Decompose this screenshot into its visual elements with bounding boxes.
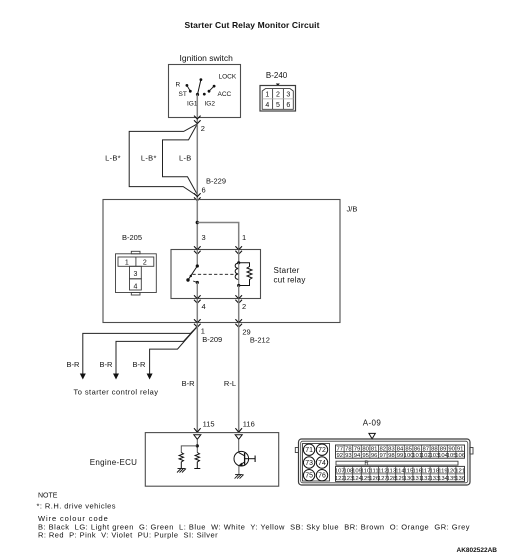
svg-text:R-L: R-L [224, 379, 236, 388]
transistor Q circle [234, 451, 249, 466]
svg-text:71: 71 [305, 447, 313, 454]
svg-text:94: 94 [354, 453, 361, 459]
branch wire B [116, 327, 197, 375]
svg-text:6: 6 [286, 102, 290, 109]
svg-text:NOTE: NOTE [38, 493, 58, 500]
arrow into ECU pin116 [235, 428, 242, 432]
arrow into J/B node 6 [194, 193, 201, 196]
transistor base T-bar [254, 456, 256, 463]
relay switch arm mid dot [190, 275, 192, 277]
svg-text:81: 81 [371, 446, 378, 452]
arrow B-212 pin29 [235, 319, 242, 322]
transistor emitter [239, 462, 245, 466]
svg-text:3: 3 [133, 271, 137, 278]
relay actuation dashed line [193, 273, 238, 275]
svg-text:99: 99 [397, 453, 404, 459]
connector A-09 body [299, 439, 471, 485]
svg-text:2: 2 [276, 92, 280, 99]
svg-text:B-229: B-229 [206, 177, 226, 186]
wire main L-B [196, 124, 198, 199]
svg-text:LOCK: LOCK [219, 74, 237, 81]
svg-text:Starter: Starter [274, 266, 300, 275]
Engine-ECU box [145, 433, 278, 487]
relay coil top node dot [237, 261, 240, 264]
relay switch top contact dot [196, 264, 199, 267]
svg-text:3: 3 [202, 233, 206, 242]
svg-text:88: 88 [431, 446, 438, 452]
arrow pin1 into relay [235, 246, 242, 249]
arrow B-209 pin1 [194, 319, 201, 322]
starter cut relay box [171, 250, 261, 299]
relay coil [235, 263, 239, 280]
svg-text:R: Red P: Pink V: Violet PU: R: Red P: Pink V: Violet PU: Purple SI: … [38, 531, 218, 540]
transistor base bar [244, 453, 246, 465]
wire pin115 to junction [196, 439, 198, 452]
ignition switch movable arm [198, 80, 201, 95]
svg-text:cut relay: cut relay [274, 276, 306, 285]
ground left [177, 469, 186, 473]
svg-text:*: R.H. drive vehicles: *: R.H. drive vehicles [37, 501, 117, 510]
svg-text:72: 72 [318, 447, 326, 454]
A-09 left tab [295, 448, 298, 453]
svg-text:106: 106 [455, 453, 466, 459]
svg-text:R: R [364, 461, 369, 467]
ground transistor [235, 475, 244, 479]
connector B-205 [116, 251, 157, 295]
svg-text:96: 96 [371, 453, 378, 459]
svg-text:4: 4 [202, 302, 206, 311]
wire branch to coil [197, 223, 238, 250]
terminator bar [194, 468, 200, 470]
svg-text:ST: ST [179, 91, 187, 98]
ignition switch box [169, 65, 241, 118]
svg-text:91: 91 [457, 446, 464, 452]
svg-text:86: 86 [414, 446, 421, 452]
ignition switch contact links [187, 85, 190, 91]
svg-text:4: 4 [133, 284, 137, 291]
B-240 top marker [276, 84, 280, 87]
relay coil bottom node dot [237, 284, 240, 287]
svg-text:B-209: B-209 [202, 335, 222, 344]
ignition switch position labels [176, 74, 237, 108]
svg-text:1: 1 [125, 260, 129, 267]
wire node6 to junction [196, 200, 198, 250]
svg-text:6: 6 [202, 186, 206, 195]
resistor right [195, 453, 199, 469]
svg-text:85: 85 [405, 446, 412, 452]
svg-text:115: 115 [203, 420, 215, 429]
svg-text:87: 87 [423, 446, 430, 452]
transistor emitter arrow [239, 463, 243, 467]
svg-text:83: 83 [388, 446, 395, 452]
svg-text:89: 89 [440, 446, 447, 452]
svg-text:97: 97 [380, 453, 387, 459]
relay coil parallel resistor [239, 263, 252, 286]
svg-text:L-B*: L-B* [105, 154, 121, 163]
transistor base lead [245, 458, 256, 460]
A-09 right tab [470, 448, 473, 455]
svg-text:136: 136 [455, 476, 466, 482]
wire pin116 to transistor [238, 439, 240, 452]
A-09 round pin area [303, 444, 330, 482]
junction node dot [196, 221, 199, 224]
svg-text:B-R: B-R [100, 360, 114, 369]
svg-text:5: 5 [276, 102, 280, 109]
arrow pin2 out of relay [235, 295, 242, 298]
junction block J/B box [103, 200, 340, 323]
svg-text:1: 1 [242, 233, 246, 242]
relay switch bottom contact dot [196, 281, 199, 284]
svg-text:To starter control relay: To starter control relay [74, 388, 159, 397]
svg-text:L-B: L-B [179, 154, 192, 163]
arrow pin4 out of relay [194, 295, 201, 298]
relay switch wire top [196, 250, 198, 267]
arrow into ECU pin115 [194, 428, 201, 432]
svg-text:B-212: B-212 [250, 336, 270, 345]
svg-text:121: 121 [455, 468, 465, 474]
relay switch arm [188, 266, 197, 280]
wire branch left [181, 446, 197, 453]
svg-text:B-R: B-R [133, 360, 147, 369]
svg-text:73: 73 [305, 460, 313, 467]
svg-text:R: R [176, 82, 181, 89]
resistor left [179, 453, 183, 469]
branch wire C [150, 327, 198, 375]
svg-text:4: 4 [265, 102, 269, 109]
svg-text:77: 77 [337, 446, 344, 452]
svg-text:IG1: IG1 [187, 101, 198, 108]
wire R-L to ECU [238, 323, 240, 433]
relay switch wire bottom [196, 283, 198, 299]
ECU pin116 entry triangle [235, 435, 242, 440]
svg-text:82: 82 [380, 446, 387, 452]
svg-text:74: 74 [318, 460, 326, 467]
relay coil wire bottom [238, 286, 240, 299]
svg-text:116: 116 [243, 420, 255, 429]
svg-text:A-09: A-09 [363, 419, 382, 428]
arrow pin3 into relay [194, 246, 201, 249]
svg-text:2: 2 [143, 260, 147, 267]
wire emitter to ground [238, 466, 240, 475]
svg-text:3: 3 [286, 92, 290, 99]
A-09 orientation triangle [369, 433, 375, 439]
ECU junction dot [196, 444, 199, 447]
wire B-R to ECU [196, 323, 198, 433]
svg-text:93: 93 [345, 453, 352, 459]
wire middle loop L-B* [163, 124, 198, 195]
relay switch arm end dot [186, 278, 189, 281]
svg-text:Engine-ECU: Engine-ECU [90, 458, 137, 467]
ECU pin115 entry triangle [194, 435, 201, 440]
svg-text:79: 79 [354, 446, 361, 452]
branch wire A to starter control relay [83, 327, 198, 375]
A-09 grid [335, 445, 466, 482]
svg-text:75: 75 [305, 473, 313, 480]
svg-text:95: 95 [362, 453, 369, 459]
ignition switch rotary contacts [186, 78, 216, 96]
svg-text:2: 2 [242, 302, 246, 311]
arrow out of ignition switch [194, 116, 201, 119]
transistor collector [239, 453, 245, 456]
svg-text:J/B: J/B [347, 205, 358, 214]
svg-text:98: 98 [388, 453, 395, 459]
svg-text:84: 84 [397, 446, 404, 452]
svg-text:AK802522AB: AK802522AB [457, 547, 498, 554]
relay coil wire top [238, 250, 240, 263]
wire ignition pivot to pin 2 [196, 95, 198, 124]
svg-text:2: 2 [201, 124, 205, 133]
svg-text:Ignition switch: Ignition switch [180, 53, 234, 63]
svg-text:B-R: B-R [182, 379, 196, 388]
svg-text:IG2: IG2 [205, 101, 216, 108]
branch arrowheads [80, 374, 86, 380]
wire pin4 to J/B bottom [196, 299, 198, 323]
wire outer loop L-B* [129, 124, 197, 196]
svg-text:L-B*: L-B* [141, 154, 157, 163]
svg-text:B-R: B-R [67, 360, 81, 369]
connector B-240 [260, 86, 296, 112]
svg-text:Starter Cut Relay Monitor Circ: Starter Cut Relay Monitor Circuit [184, 20, 319, 30]
svg-text:80: 80 [362, 446, 369, 452]
svg-text:B-240: B-240 [266, 71, 288, 80]
svg-text:ACC: ACC [218, 91, 232, 98]
relay switch bottom tick [193, 281, 197, 283]
svg-text:92: 92 [337, 453, 344, 459]
svg-text:78: 78 [345, 446, 352, 452]
wire pin2 to J/B bottom [238, 299, 240, 323]
svg-text:1: 1 [265, 92, 269, 99]
svg-text:90: 90 [448, 446, 455, 452]
svg-text:B-205: B-205 [122, 233, 142, 242]
svg-text:76: 76 [318, 473, 326, 480]
